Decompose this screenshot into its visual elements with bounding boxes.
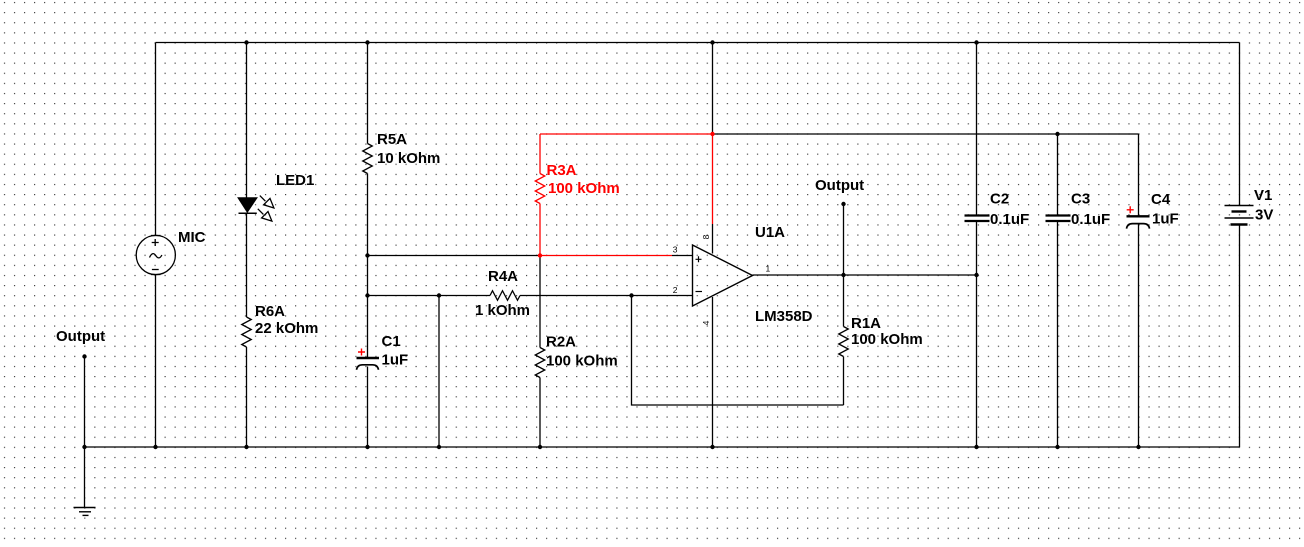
svg-text:R2A: R2A [546,334,576,351]
svg-text:0.1uF: 0.1uF [990,211,1029,228]
junction dots red [538,132,715,258]
svg-text:V1: V1 [1254,187,1272,204]
wire bypass rail y134 [713,133,1139,135]
wire output label drop [843,204,845,275]
svg-text:C1: C1 [382,333,401,350]
svg-text:100 kOhm: 100 kOhm [851,331,923,348]
svg-text:R5A: R5A [377,131,407,148]
svg-text:U1A: U1A [755,224,785,241]
wire top rail [156,42,1240,44]
microphone MIC [136,235,175,274]
wire op-amp V+ from top rail [712,43,714,135]
ground [74,508,96,516]
wire R1A column [843,275,845,405]
svg-text:LED1: LED1 [276,172,314,189]
svg-text:C2: C2 [990,191,1009,208]
resistor R3A red [535,134,712,256]
svg-text:MIC: MIC [178,229,206,246]
wire left output drop [84,357,86,448]
svg-text:100 kOhm: 100 kOhm [546,353,618,370]
capacitor C4 [1127,206,1150,228]
resistor R1A [839,327,849,357]
capacitor C3 [1046,216,1071,222]
wire red to pin3 [540,255,672,257]
svg-text:8: 8 [701,234,711,239]
wire R4A branch down [438,296,440,448]
svg-text:10 kOhm: 10 kOhm [377,150,440,167]
wire MIC column top [155,43,157,236]
battery V1 [1225,206,1254,225]
wire bottom rail [85,446,1240,448]
svg-text:R4A: R4A [488,268,518,285]
svg-text:4: 4 [701,320,711,325]
wire MIC column bottom [155,275,157,448]
wire output run [753,274,977,276]
pin numbers [673,234,771,325]
svg-text:100 kOhm: 100 kOhm [548,180,620,197]
wire ground stem [84,447,86,508]
resistor R5A [363,144,373,174]
LED LED1 [238,196,274,222]
wire pin3 stub [672,255,693,257]
resistor R2A [535,348,545,378]
wire red to pin8 [712,134,714,224]
svg-text:1: 1 [766,264,771,274]
svg-text:0.1uF: 0.1uF [1071,211,1110,228]
wire pin8 stub [712,224,714,254]
svg-text:C4: C4 [1151,191,1171,208]
wire LED cathode to R6A to bottom rail [246,213,248,447]
svg-text:Output: Output [56,328,105,345]
svg-text:3: 3 [673,245,678,255]
svg-text:1uF: 1uF [1152,211,1179,228]
svg-text:3V: 3V [1255,207,1273,224]
wire feedback loop [632,296,844,406]
resistor R4A [490,291,520,301]
svg-text:R1A: R1A [851,315,881,332]
wire LED column top [246,43,248,199]
op-amp U1A [693,245,753,306]
wire pin4 to bottom rail [712,297,714,447]
svg-text:1 kOhm: 1 kOhm [475,302,530,319]
capacitor C1 [357,349,380,370]
junction dots black [82,40,1140,449]
svg-text:R3A: R3A [547,162,577,179]
svg-text:2: 2 [673,285,678,295]
svg-text:C3: C3 [1071,191,1090,208]
wire C4 column [1138,134,1140,447]
svg-text:1uF: 1uF [382,352,409,369]
wire red top [540,133,713,135]
wire R5A column [367,43,369,448]
wire R2A column [539,256,541,448]
wire C3 column [1057,134,1059,447]
svg-text:LM358D: LM358D [755,308,813,325]
wire V1 column [1239,43,1241,448]
svg-text:22 kOhm: 22 kOhm [255,320,318,337]
wire inverting input run [368,295,693,297]
resistor R6A [242,317,252,347]
capacitor C2 [965,216,990,222]
wire C2 column [976,43,978,448]
svg-text:R6A: R6A [255,303,285,320]
wire noninverting input run [368,255,541,257]
svg-text:Output: Output [815,177,864,194]
